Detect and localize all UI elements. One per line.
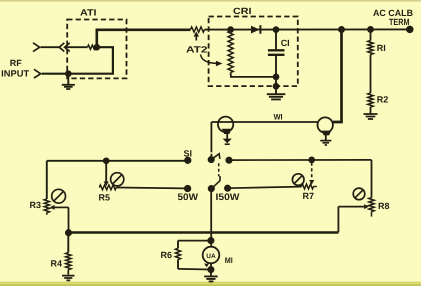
node R6 bottom tap bbox=[208, 267, 213, 272]
wire R6 bottom bbox=[178, 268, 211, 271]
wire switch poleB to meter bbox=[210, 191, 212, 248]
node C1 top bbox=[274, 27, 279, 32]
AT2 pointer curved arrow bbox=[201, 55, 217, 64]
resistor R6 bbox=[177, 241, 179, 249]
node lamp feed bbox=[339, 27, 344, 32]
svg-text:R3: R3 bbox=[30, 200, 42, 210]
screwdriver adjust R5 bbox=[111, 173, 124, 186]
switch S1 pole A blade bbox=[212, 154, 220, 160]
wire lamp row bbox=[211, 121, 317, 123]
svg-text:R6: R6 bbox=[161, 250, 173, 260]
ground of R2 bbox=[364, 114, 378, 119]
lamp W1b filament bbox=[321, 131, 331, 136]
ground of lamp W1a (arrow style) bbox=[223, 139, 232, 144]
wire bottom bus bbox=[69, 231, 339, 233]
wire wiper to bus bbox=[68, 207, 70, 232]
lamp W1a filament bbox=[222, 129, 232, 134]
node R4 junction bbox=[66, 230, 71, 235]
label R7 bbox=[303, 191, 315, 201]
node CR1 bottom junction bbox=[274, 74, 279, 79]
node R5 tap bbox=[104, 158, 109, 163]
terminal switch left 150W row bbox=[185, 186, 191, 192]
screwdriver adjust R8 bbox=[353, 188, 365, 200]
connector J1 top plug bbox=[33, 43, 40, 52]
wire R5 to switch row bbox=[116, 187, 185, 190]
svg-text:INPUT: INPUT bbox=[1, 68, 30, 78]
wire coil bottom bbox=[231, 73, 276, 77]
resistor R1 bbox=[368, 41, 373, 55]
AT2 wiper arrow up bbox=[195, 35, 197, 41]
node AT1 tap bbox=[94, 45, 99, 50]
switch linkage dashed bbox=[218, 163, 220, 176]
label R4 bbox=[51, 259, 63, 269]
wire to R8 top bbox=[371, 160, 373, 198]
wire R8 wiper to bus bbox=[337, 207, 339, 233]
AT1 body rectangle bbox=[42, 47, 113, 73]
label RF INPUT bbox=[1, 58, 30, 79]
switch S1 pole B blade bbox=[212, 176, 220, 188]
switch S1 pole A contact bbox=[209, 157, 214, 162]
wire R2 to ground bbox=[370, 107, 372, 114]
screwdriver adjust R3 bbox=[52, 189, 66, 203]
wire R6 top bbox=[178, 240, 211, 242]
resistor R7 bbox=[302, 184, 314, 189]
connector top jack (mating chevrons) bbox=[59, 43, 69, 52]
wire between R1 R2 bbox=[370, 55, 372, 94]
label M1 bbox=[225, 256, 233, 265]
resistor R8 bbox=[369, 198, 374, 212]
svg-text:I50W: I50W bbox=[216, 192, 240, 203]
wire R4 branch bbox=[67, 233, 69, 253]
label 150W bbox=[216, 192, 240, 203]
switch S1 pole B contact bbox=[209, 186, 214, 191]
wire lamp W1b ground stub bbox=[325, 135, 327, 141]
svg-text:CRI: CRI bbox=[233, 6, 252, 16]
R7 wiper dashed bbox=[311, 163, 313, 182]
label CR1 bbox=[233, 6, 252, 16]
meter polarity arrow bbox=[204, 264, 209, 268]
wire ground stub bbox=[67, 74, 69, 85]
svg-text:MI: MI bbox=[225, 256, 233, 265]
R8 wiper arrow bbox=[338, 206, 365, 208]
wire heavy lamp feed drop bbox=[333, 30, 342, 123]
svg-text:RI: RI bbox=[377, 43, 386, 53]
wire R1 branch bbox=[370, 29, 372, 40]
wire lamp to switch bbox=[210, 122, 212, 156]
node coil top bbox=[228, 27, 233, 32]
terminal switch left 50W bbox=[185, 158, 191, 164]
svg-text:ATI: ATI bbox=[80, 7, 97, 17]
label R5 bbox=[99, 192, 111, 202]
wire into AT1 bbox=[65, 46, 88, 48]
attenuator AT1 series zigzag bbox=[88, 45, 96, 49]
ground at AT1 bbox=[62, 85, 75, 89]
resistor R2 bbox=[368, 93, 373, 107]
svg-text:R7: R7 bbox=[303, 191, 315, 201]
R3 wiper arrow bbox=[50, 205, 55, 210]
svg-text:R2: R2 bbox=[377, 95, 389, 105]
svg-text:R5: R5 bbox=[99, 192, 111, 202]
node ground tap on rf return bbox=[66, 71, 71, 76]
ground of CR1 bbox=[267, 94, 286, 99]
label AT2 bbox=[186, 45, 208, 55]
svg-text:AT2: AT2 bbox=[186, 45, 208, 55]
attenuator AT2 zigzag in line bbox=[191, 27, 205, 32]
lamp W1a circle bbox=[218, 117, 233, 132]
svg-text:R8: R8 bbox=[378, 201, 390, 211]
svg-text:CI: CI bbox=[281, 38, 290, 48]
diode CR1 bbox=[251, 26, 260, 34]
node R1 top bbox=[368, 27, 373, 32]
wire top rf bbox=[41, 46, 60, 48]
label R6 bbox=[161, 250, 173, 260]
resistor R5 bbox=[99, 185, 116, 190]
node R6 top tap bbox=[208, 238, 213, 243]
AT1 enclosure dashed box bbox=[67, 20, 126, 79]
resistor R3 bbox=[44, 199, 49, 213]
svg-text:TERM: TERM bbox=[389, 17, 410, 27]
resistor R4 bbox=[66, 253, 71, 270]
thermistor coil of CR1 bbox=[228, 31, 233, 73]
wire meter to ground bbox=[210, 263, 212, 275]
label AT1 bbox=[80, 7, 97, 17]
switch S1 throw B contact bbox=[225, 186, 230, 191]
svg-text:50W: 50W bbox=[178, 192, 199, 203]
terminal AC CAL bbox=[407, 27, 413, 33]
label R8 bbox=[378, 201, 390, 211]
switch S1 throw A contact bbox=[226, 158, 231, 163]
wire heavy riser AT1 output bbox=[97, 30, 191, 47]
svg-text:UA: UA bbox=[206, 253, 216, 260]
CR1 enclosure dashed box bbox=[209, 17, 298, 87]
screwdriver adjust R7 bbox=[292, 174, 304, 186]
wire switch row to R7 bbox=[228, 187, 302, 189]
svg-text:R4: R4 bbox=[51, 259, 63, 269]
ground of lamp W1b bbox=[320, 141, 331, 145]
wire R5 wiper bbox=[105, 161, 107, 183]
meter M1 circle bbox=[203, 247, 220, 264]
wire switch to R7/R8 row bbox=[229, 159, 372, 161]
connector J2 bottom plug bbox=[34, 69, 41, 78]
label AC CALB TERM bbox=[373, 8, 413, 27]
lamp W1b circle bbox=[318, 117, 333, 132]
label 50W bbox=[178, 192, 199, 203]
wire main bus to AC CAL terminal bbox=[205, 28, 410, 30]
capacitor C1 bbox=[275, 30, 277, 50]
label W1 bbox=[274, 112, 283, 121]
wire CR1 ground stub bbox=[275, 77, 277, 94]
node R7 wiper tap bbox=[309, 157, 314, 162]
ground of R4 bbox=[62, 276, 75, 281]
svg-text:WI: WI bbox=[274, 112, 283, 121]
node at box edge crossing bbox=[274, 84, 279, 89]
ground of M1 bbox=[204, 276, 218, 281]
svg-text:RF: RF bbox=[10, 58, 22, 68]
wire left row to switch bbox=[47, 160, 185, 162]
label S1 bbox=[184, 148, 193, 158]
wire lamp W1a ground stub bbox=[226, 133, 228, 139]
wire R3 branch bbox=[46, 161, 48, 199]
label R3 bbox=[30, 200, 42, 210]
